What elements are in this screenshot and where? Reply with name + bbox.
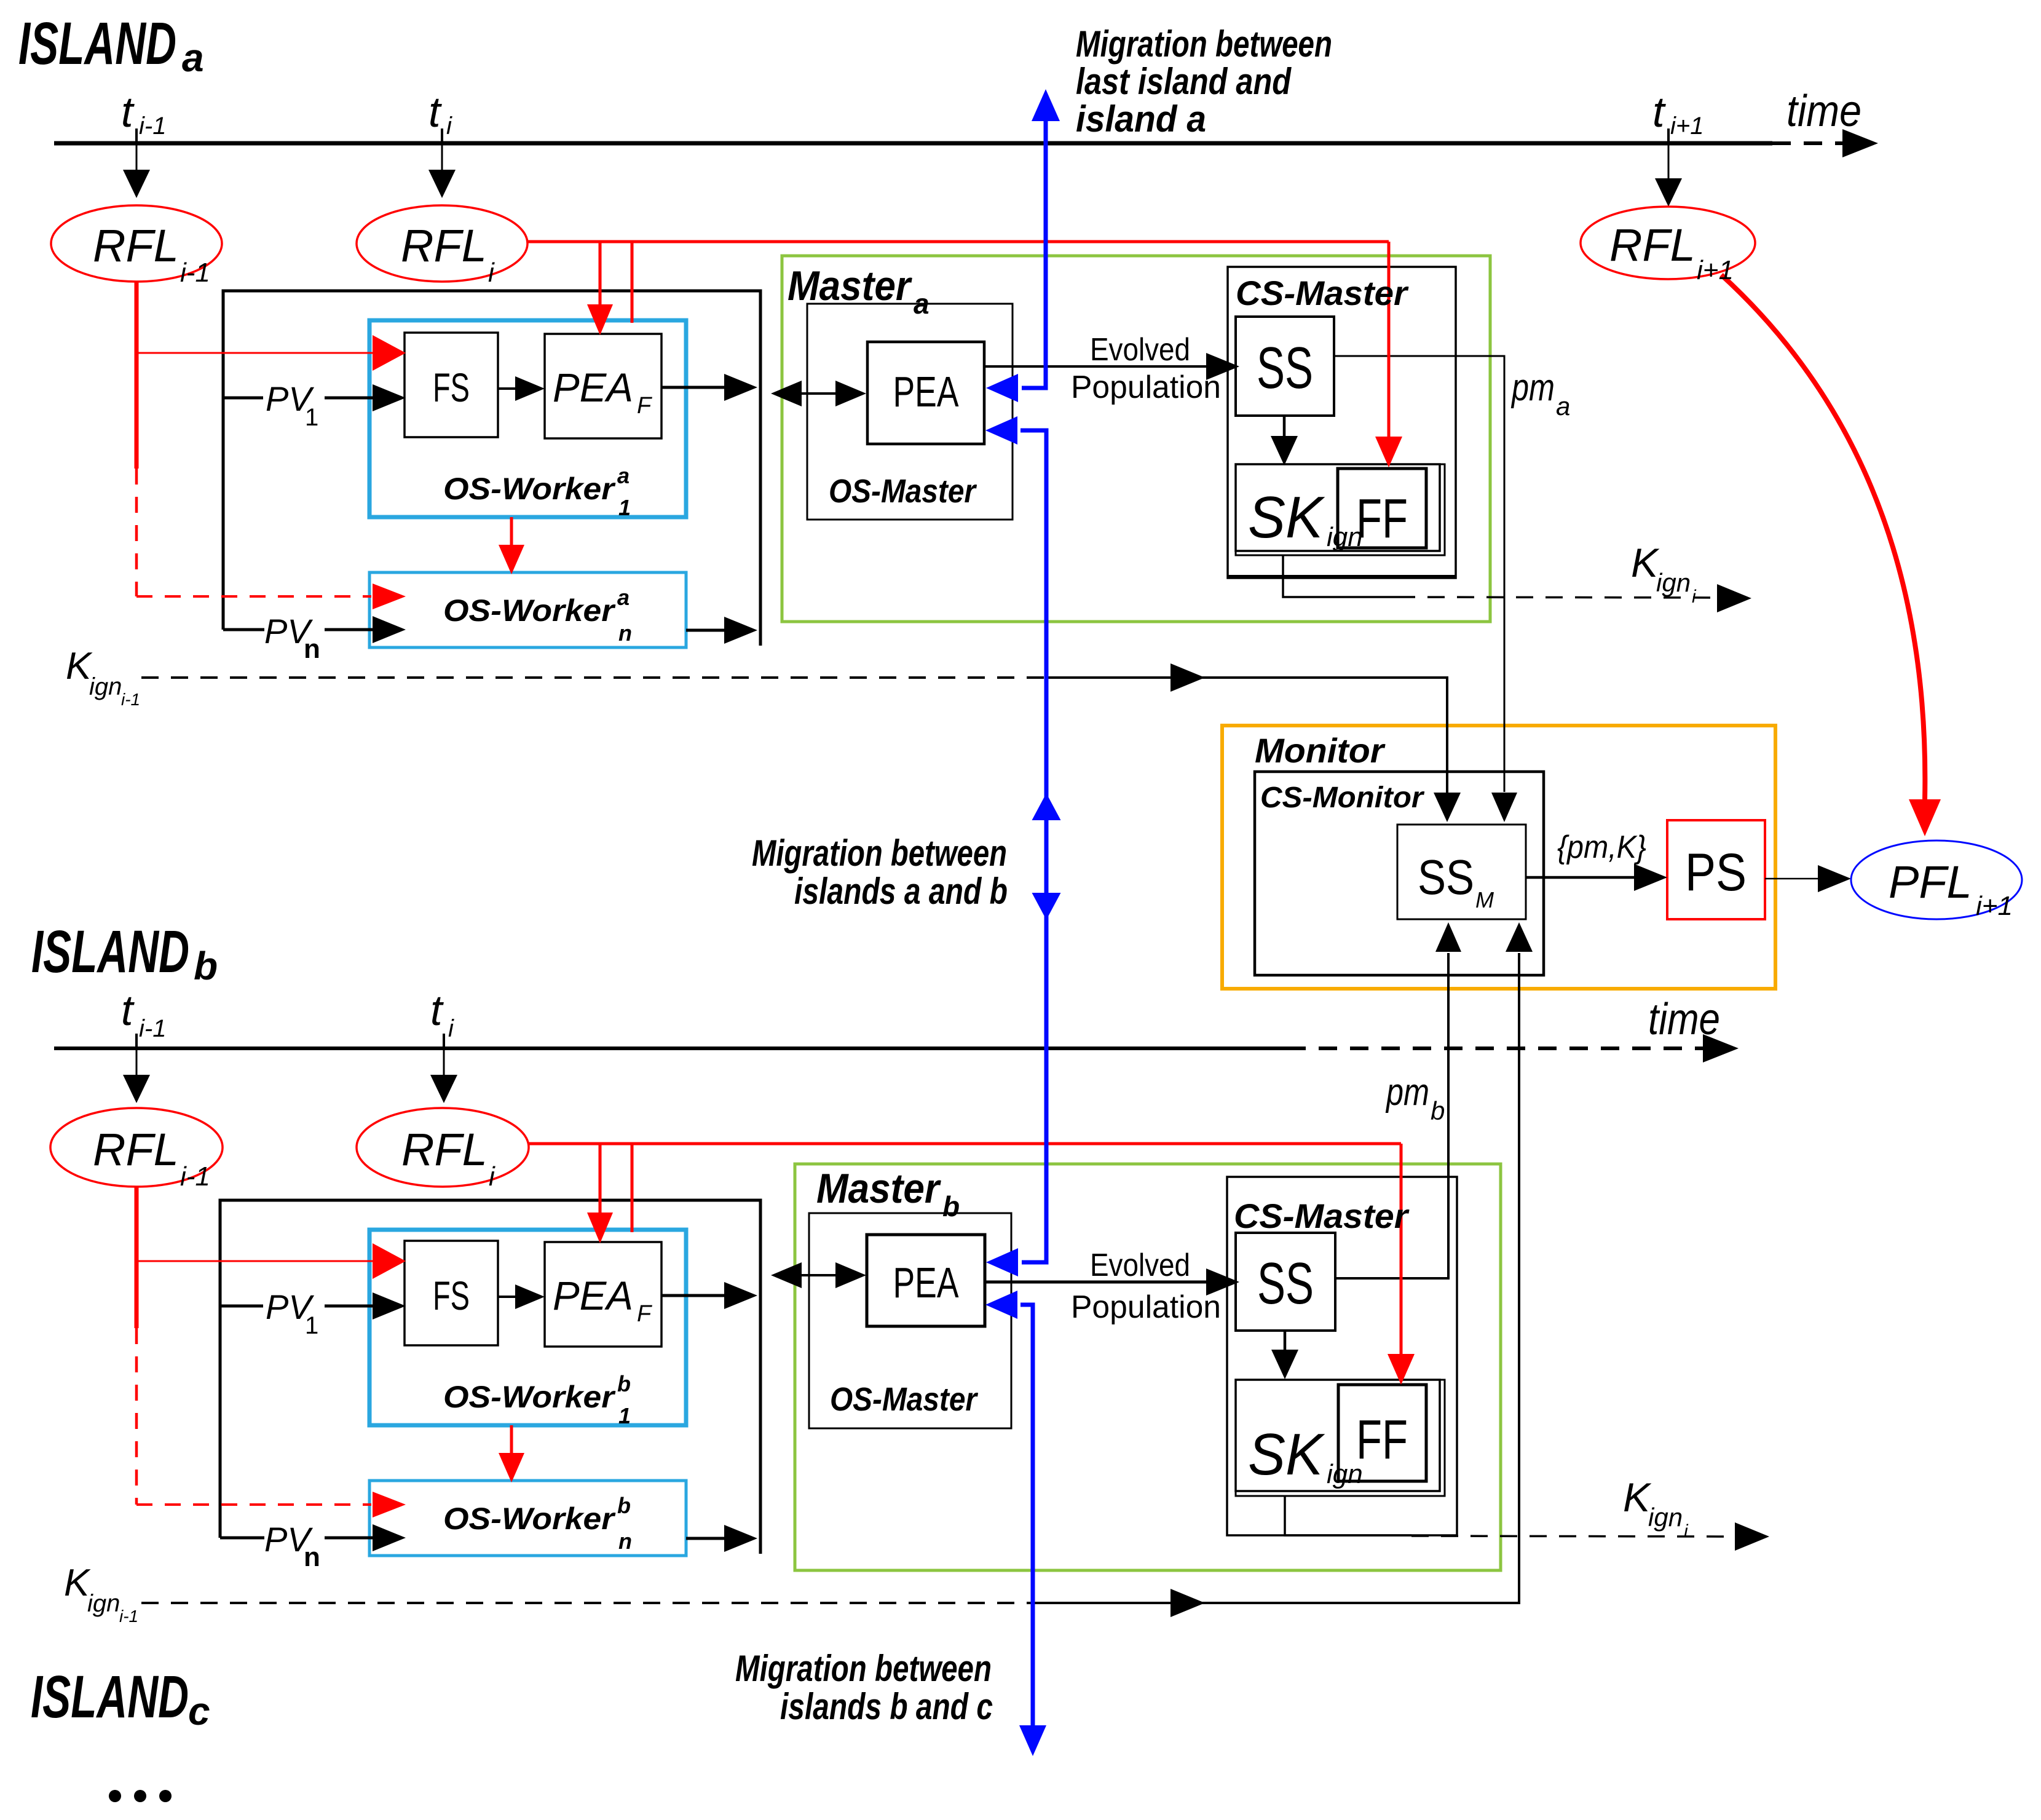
blue arrowhead into PEA island b lower: [985, 1291, 1017, 1319]
wire Evolved Population PEA to SS island a: [984, 365, 1207, 368]
svg-text:i+1: i+1: [1670, 113, 1704, 140]
blue arrowhead into PEA island b upper: [986, 1248, 1018, 1276]
tick t_i+1 island a: [1667, 129, 1670, 143]
red arrow worker1 to workern island a: [510, 517, 513, 546]
wire SS right to pm_b vertical island b: [1335, 953, 1448, 1278]
group box Master_a (green): [782, 256, 1490, 622]
svg-text:Population: Population: [1071, 370, 1221, 405]
svg-text:a: a: [914, 288, 930, 320]
red curve RFL_i+1 to PFL_i+1: [1721, 275, 1925, 799]
wire PV_1 island a: [223, 397, 263, 400]
red wire down to FF island a: [1388, 242, 1391, 437]
svg-text:n: n: [618, 620, 632, 646]
svg-text:i+1: i+1: [1697, 255, 1734, 285]
arrowhead K_ign_i island a: [1717, 584, 1751, 612]
red wire RFL_i-1 down island a: [135, 280, 139, 469]
svg-text:FF: FF: [1356, 1409, 1408, 1471]
svg-text:Migration between: Migration between: [752, 833, 1007, 874]
box SK_ign island a: [1236, 464, 1440, 551]
tick t_i-1 island a: [135, 129, 138, 143]
svg-text:i+1: i+1: [1976, 891, 2013, 921]
svg-text:PEA: PEA: [893, 368, 959, 416]
svg-text:ISLAND: ISLAND: [31, 918, 189, 985]
box OS-Worker_n_a (cyan): [369, 572, 686, 647]
arrow t_i-1 to RFL_i-1 island a: [136, 143, 138, 172]
svg-text:b: b: [194, 944, 218, 988]
svg-text:OS-Master: OS-Master: [830, 1381, 979, 1418]
svg-text:1: 1: [305, 404, 318, 431]
svg-text:t: t: [121, 986, 135, 1034]
svg-text:island a: island a: [1076, 98, 1206, 140]
box OS-Workers container island b: [220, 1200, 760, 1554]
svg-text:Population: Population: [1071, 1289, 1221, 1325]
red drop right island b: [631, 1144, 634, 1232]
wire SS right to pm_a vertical: [1334, 356, 1504, 792]
blue arrowhead into PEA island a lower: [985, 416, 1017, 445]
box OS-Workers container island a: [223, 291, 760, 646]
svg-text:OS-Master: OS-Master: [829, 473, 977, 510]
box OS-Worker_1_a (cyan): [369, 320, 686, 517]
box PEA island a: [867, 342, 984, 444]
box OS-Worker_1_b (cyan): [369, 1230, 686, 1425]
svg-text:RFL: RFL: [93, 1124, 179, 1175]
svg-text:OS-Worker: OS-Worker: [443, 1502, 616, 1536]
svg-text:OS-Worker: OS-Worker: [443, 593, 616, 628]
box OS-Worker_n_b (cyan): [369, 1481, 686, 1556]
wire PV_n island b: [220, 1537, 264, 1540]
svg-text:t: t: [430, 986, 444, 1034]
box SK_ign outer island b: [1236, 1380, 1445, 1496]
svg-text:RFL: RFL: [93, 220, 179, 271]
box PEA_F island a: [545, 334, 661, 438]
wire K_ign_i-1 solid part island b to Monitor: [1033, 953, 1519, 1603]
node RFL_i+1: [1581, 207, 1755, 279]
svg-text:OS-Worker: OS-Worker: [443, 472, 616, 506]
wire PS to PFL_i+1: [1765, 878, 1818, 880]
svg-text:i-1: i-1: [139, 1015, 166, 1042]
svg-text:pm: pm: [1510, 366, 1555, 409]
svg-text:t: t: [428, 88, 442, 136]
svg-text:i-1: i-1: [119, 1607, 138, 1626]
wire OS-Worker_n output island b: [686, 1537, 725, 1540]
svg-text:time: time: [1648, 995, 1720, 1044]
red arrowhead into FS island a: [373, 335, 406, 371]
wire K_ign_i dashed island b: [1411, 1536, 1736, 1537]
svg-text:PEA: PEA: [893, 1259, 959, 1307]
svg-text:t: t: [121, 88, 135, 136]
node RFL_i island b: [357, 1108, 529, 1187]
box FS island a: [405, 333, 498, 437]
svg-text:F: F: [637, 393, 652, 419]
red dashed arrowhead into OS-Worker_n island a: [373, 584, 406, 609]
svg-text:Evolved: Evolved: [1090, 332, 1190, 368]
svg-text:K: K: [1623, 1474, 1652, 1520]
box CS-Monitor: [1255, 772, 1544, 975]
blue wire migration islands b and c: [1020, 1305, 1033, 1725]
svg-text:a: a: [617, 463, 630, 488]
node RFL_i-1 island b: [50, 1108, 223, 1187]
svg-text:b: b: [617, 1371, 631, 1396]
svg-text:Master: Master: [788, 263, 912, 309]
svg-text:CS-Master: CS-Master: [1236, 274, 1409, 312]
svg-text:i-1: i-1: [139, 113, 166, 140]
svg-text:n: n: [618, 1529, 632, 1554]
timeline island a dashed part: [1772, 141, 1844, 145]
arrow t_i+1 to RFL_i+1: [1668, 143, 1670, 178]
box OS-Master island b: [809, 1213, 1011, 1428]
box FS island b: [405, 1241, 498, 1345]
wire K_ign_i-1 dashed island a: [141, 676, 1046, 679]
red drop into PEA_F island a: [599, 242, 602, 304]
box PEA_F island b: [545, 1242, 661, 1347]
arrow t_i to RFL_i island b: [443, 1048, 445, 1077]
svg-text:Migration between: Migration between: [735, 1648, 992, 1689]
wire K_ign_i-1 dashed island b: [141, 1602, 1033, 1604]
svg-text:1: 1: [618, 1403, 631, 1428]
svg-text:i: i: [446, 113, 452, 140]
box FF island a: [1338, 469, 1426, 548]
svg-text:SS: SS: [1418, 850, 1474, 904]
wire SS down to SK island a: [1283, 416, 1286, 438]
box OS-Master island a: [807, 304, 1013, 520]
wire PEA_F output island b: [661, 1294, 725, 1297]
box SS island a: [1236, 317, 1334, 416]
svg-text:ign: ign: [87, 1590, 120, 1617]
tick t_i island a: [441, 129, 443, 143]
svg-text:PS: PS: [1685, 843, 1747, 902]
svg-text:Master: Master: [816, 1165, 941, 1212]
svg-text:SS: SS: [1257, 335, 1313, 401]
svg-text:RFL: RFL: [401, 220, 487, 271]
svg-text:ISLAND: ISLAND: [18, 10, 176, 77]
wire bidirectional workers-PEA island b: [776, 1274, 862, 1276]
wire bidirectional workers-PEA island a: [776, 392, 862, 395]
wire PV_1 island b: [220, 1305, 263, 1308]
tick t_i island b: [443, 1034, 445, 1048]
wire K_ign_i-1 solid part island a to Monitor: [1046, 678, 1447, 794]
arrow K line into SS_M top: [1434, 793, 1461, 822]
node RFL_i-1 island a: [51, 205, 222, 282]
arrow t_i to RFL_i island a: [441, 143, 443, 172]
svg-text:SK: SK: [1248, 1422, 1325, 1487]
wire FS to PEA_F island b: [498, 1296, 523, 1298]
red dashed wire RFL_i-1 island a: [135, 469, 138, 596]
svg-text:PEA: PEA: [553, 1273, 633, 1318]
svg-text:i-1: i-1: [180, 1161, 210, 1192]
svg-text:SS: SS: [1257, 1251, 1314, 1316]
arrow pm_a into SS_M top: [1491, 793, 1517, 822]
arrow K line into SS_M bottom island b: [1506, 922, 1533, 952]
tick t_i-1 island b: [135, 1034, 138, 1048]
svg-text:1: 1: [618, 495, 631, 520]
box SS island b: [1236, 1233, 1335, 1331]
svg-text:F: F: [637, 1301, 652, 1327]
blue arrowhead into PEA island a upper: [986, 374, 1018, 402]
blue wire migration last island to island a: [1032, 89, 1060, 121]
svg-text:FF: FF: [1356, 488, 1408, 550]
timeline island a arrowhead: [1842, 129, 1878, 157]
box SS_M: [1397, 825, 1526, 919]
svg-text:SK: SK: [1248, 485, 1325, 550]
box CS-Master island b: [1227, 1177, 1457, 1535]
arrowhead on K_ign_i-1 line island b: [1171, 1589, 1205, 1617]
svg-text:time: time: [1786, 87, 1861, 136]
svg-text:ign: ign: [1648, 1503, 1683, 1532]
line CS-Master bottom thick island a: [1228, 575, 1456, 579]
red wire RFL_i-1 down island b: [135, 1184, 139, 1328]
svg-text:a: a: [182, 36, 204, 80]
svg-text:i-1: i-1: [180, 258, 210, 288]
svg-text:a: a: [617, 585, 630, 610]
svg-text:PFL: PFL: [1889, 857, 1972, 908]
wire OS-Worker_n output island a: [686, 629, 725, 632]
wire Evolved Population PEA to SS island b: [985, 1281, 1207, 1284]
svg-text:ISLAND: ISLAND: [31, 1663, 189, 1730]
svg-text:last island and: last island and: [1076, 61, 1292, 102]
timeline island b dashed part: [1287, 1046, 1705, 1050]
svg-text:OS-Worker: OS-Worker: [443, 1380, 616, 1414]
red arrowhead into FS island b: [373, 1243, 406, 1279]
svg-text:a: a: [1556, 392, 1570, 421]
timeline island b arrowhead: [1703, 1034, 1739, 1062]
wire SK bottom to K_ign_i dashed island a: [1283, 555, 1398, 597]
svg-text:t: t: [1652, 88, 1666, 136]
red arrow worker1 to workern island b: [510, 1425, 513, 1454]
svg-text:FS: FS: [433, 365, 470, 410]
ellipsis dots island c: [109, 1790, 121, 1802]
box SK_ign island b: [1236, 1380, 1440, 1491]
svg-text:b: b: [617, 1493, 631, 1518]
svg-text:RFL: RFL: [1609, 220, 1696, 271]
wire K_ign_i dashed island a: [1398, 597, 1718, 598]
red drop right island a: [631, 242, 634, 323]
group box Master_b (green): [795, 1164, 1501, 1570]
svg-text:i: i: [488, 258, 495, 288]
red dashed wire RFL_i-1 island b: [135, 1328, 138, 1505]
node RFL_i island a: [357, 205, 527, 282]
box PS (red): [1667, 820, 1765, 919]
svg-text:{pm,K}: {pm,K}: [1557, 829, 1646, 865]
svg-text:Migration between: Migration between: [1076, 23, 1332, 65]
wire PV_n island a: [223, 628, 264, 631]
svg-text:islands b and c: islands b and c: [780, 1686, 993, 1727]
svg-text:PEA: PEA: [553, 365, 633, 410]
blue wire migration islands a and b: [1020, 430, 1046, 1262]
svg-text:c: c: [188, 1689, 210, 1733]
timeline island a: [54, 141, 1772, 146]
arrow pm_b into SS_M bottom: [1435, 922, 1461, 952]
red thin wire RFL_i-1 to FS island a: [136, 352, 374, 354]
blue arrowhead migration b-c bottom: [1019, 1725, 1046, 1756]
red wire RFL_i to CS-Master island b: [527, 1142, 1401, 1145]
svg-text:M: M: [1475, 887, 1494, 912]
svg-text:K: K: [1631, 540, 1660, 585]
svg-text:CS-Master: CS-Master: [1234, 1197, 1410, 1235]
node PFL_i+1 (blue): [1851, 841, 2022, 919]
svg-text:pm: pm: [1385, 1071, 1429, 1114]
svg-text:n: n: [304, 1542, 320, 1572]
wire FS to PEA_F island a: [498, 387, 523, 390]
wire PEA_F output island a: [661, 386, 725, 389]
red wire down to FF island b: [1400, 1144, 1403, 1354]
svg-text:RFL: RFL: [401, 1124, 488, 1175]
svg-text:ign: ign: [1656, 568, 1691, 597]
wire SS_M to PS: [1526, 876, 1635, 879]
svg-text:CS-Monitor: CS-Monitor: [1260, 781, 1424, 814]
svg-text:ign: ign: [89, 673, 122, 700]
wire SK bottom to K_ign_i dashed island b: [1285, 1496, 1411, 1535]
red drop into PEA_F island b: [599, 1144, 602, 1213]
red wire RFL_i to CS-Master island a: [527, 240, 1389, 243]
svg-text:i-1: i-1: [121, 690, 140, 709]
red thin wire RFL_i-1 to FS island b: [136, 1260, 374, 1262]
svg-text:Evolved: Evolved: [1090, 1248, 1190, 1283]
arrow t_i-1 to RFL_i-1 island b: [136, 1048, 138, 1077]
box SK_ign outer island a: [1236, 464, 1445, 555]
svg-text:FS: FS: [433, 1273, 470, 1318]
svg-text:n: n: [304, 634, 320, 664]
svg-text:i: i: [489, 1161, 495, 1192]
svg-text:1: 1: [305, 1312, 318, 1339]
svg-text:islands a and b: islands a and b: [794, 871, 1008, 912]
blue mid arrowhead up migration a-b: [1032, 793, 1061, 820]
box FF island b: [1338, 1385, 1426, 1481]
blue mid arrowhead down migration a-b: [1032, 893, 1061, 920]
group box Monitor (orange): [1222, 726, 1775, 989]
svg-text:i: i: [448, 1015, 454, 1042]
red dashed arrowhead into OS-Worker_n island b: [373, 1492, 406, 1517]
svg-text:b: b: [1431, 1096, 1445, 1125]
box CS-Master island a: [1228, 267, 1456, 578]
svg-text:Monitor: Monitor: [1255, 731, 1386, 770]
arrowhead on K_ign_i-1 line island a: [1171, 663, 1205, 692]
arrowhead K_ign_i island b: [1735, 1522, 1769, 1551]
box PEA island b: [867, 1235, 985, 1326]
timeline island b: [54, 1046, 1287, 1050]
svg-text:b: b: [942, 1190, 960, 1222]
wire SS down to SK island b: [1284, 1331, 1287, 1351]
